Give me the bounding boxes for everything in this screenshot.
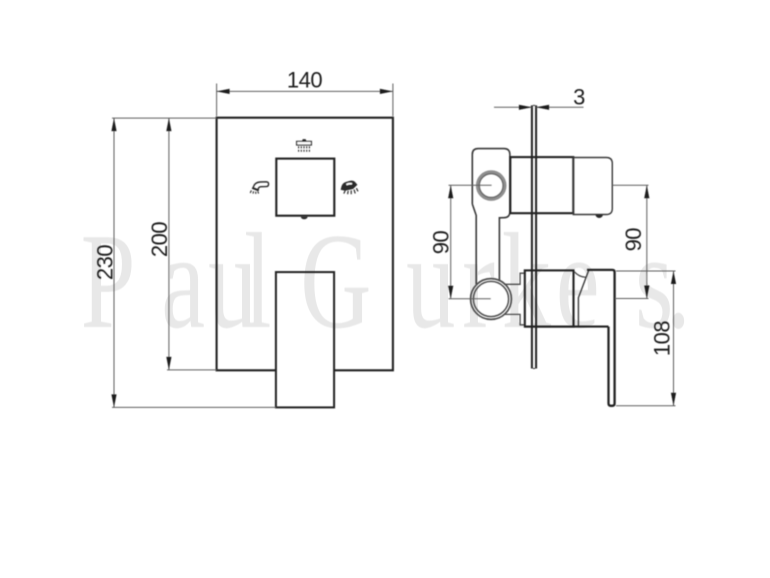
escutcheon slant + side: [578, 270, 589, 326]
svg-text:140: 140: [287, 68, 322, 93]
bottom port circle: [471, 279, 512, 320]
dim 200: [167, 118, 217, 370]
svg-text:3: 3: [573, 85, 585, 110]
trim cap right top: [573, 158, 612, 215]
handle front rectangle: [276, 272, 334, 407]
escutcheon dome arc: [574, 272, 586, 278]
cartridge block bottom: [525, 270, 574, 326]
cartridge block top: [510, 157, 573, 213]
hand shower icon left: [250, 182, 268, 194]
svg-text:230: 230: [92, 245, 117, 280]
dim 230: [112, 118, 276, 407]
top port circle: [478, 172, 505, 199]
escutcheon bottom edge: [525, 326, 609, 328]
watermark PaulGurkes: [81, 205, 691, 356]
hand shower icon right: [341, 181, 358, 195]
dim 3: [494, 106, 584, 108]
set screw: [596, 215, 603, 218]
overhead shower icon: [297, 140, 312, 152]
wall plate side (3mm): [532, 105, 536, 368]
dim 90 right: [612, 185, 648, 298]
dim 90 left: [449, 185, 492, 298]
svg-text:90: 90: [429, 231, 454, 255]
dim 140: [217, 84, 393, 117]
diverter square window: [276, 159, 334, 216]
tick below square: [301, 217, 308, 220]
connector bottom port to cartridge: [504, 273, 525, 325]
svg-text:90: 90: [621, 228, 646, 252]
wall plate front rectangle: [217, 118, 393, 371]
svg-text:108: 108: [650, 321, 675, 356]
dim 108: [616, 271, 676, 406]
svg-text:200: 200: [147, 222, 172, 257]
handle lever side: [587, 270, 615, 406]
inlet housing top: [472, 149, 510, 285]
